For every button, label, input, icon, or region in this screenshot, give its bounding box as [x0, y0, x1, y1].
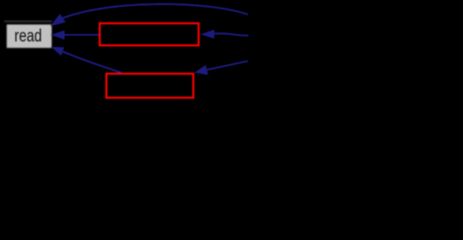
arrowhead E2 [51, 30, 65, 40]
edge E4: hidden caller -> red1 [214, 33, 248, 35]
node read (outer periphery line) [4, 21, 52, 22]
arrowhead E4 [200, 30, 214, 39]
edge E2: red1 -> read [64, 34, 99, 36]
arrowhead E5 [194, 65, 208, 75]
edge E5: hidden caller -> red2 [207, 61, 248, 70]
edge E3: red2 -> read [63, 52, 122, 73]
arrowhead E1 [50, 14, 65, 27]
arrowhead E3 [51, 47, 64, 56]
edge E1: hidden caller -> read (top curve) [63, 4, 248, 18]
node red1 [100, 23, 199, 45]
node read [7, 25, 52, 48]
node red2 [106, 74, 193, 98]
svg-text:read: read [14, 27, 42, 46]
